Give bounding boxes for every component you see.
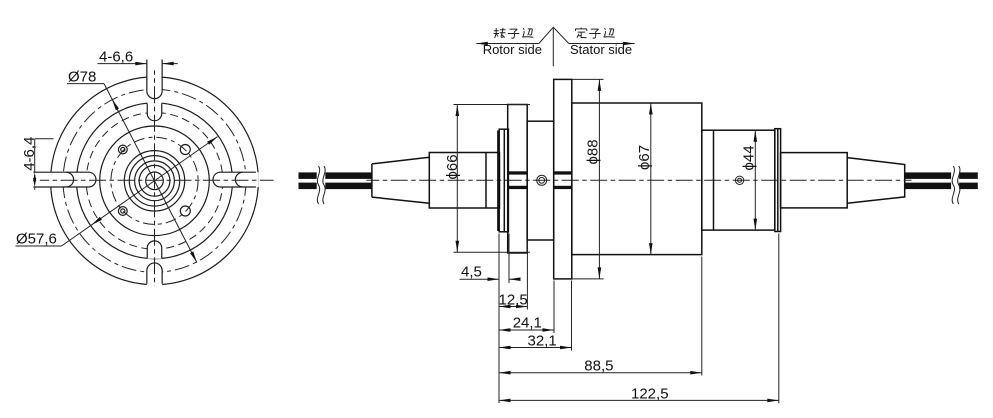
side view: sectional profile [299,27,978,403]
svg-text:ϕ88: ϕ88 [584,139,601,164]
slot left (with dimension extension) [33,172,96,187]
datum target symbol left [537,175,547,185]
bolt circle (dash-dot, Ø78 target) [63,89,246,272]
svg-text:4-6,4: 4-6,4 [21,137,38,171]
rotor plate (Ø66) [508,105,528,254]
hub circle [100,126,210,236]
svg-text:ϕ44: ϕ44 [740,145,757,170]
hole upper-left (counterbored) [118,145,127,154]
left cone housing [372,157,429,203]
vertical centerline [154,71,156,287]
hidden circle (dashed, Ø57.6 target) [86,113,223,250]
slot top inner [147,103,162,120]
slot top outer [147,60,162,99]
wire break squiggle [317,166,319,204]
dimension Ø66 [444,105,461,253]
svg-text:Ø78: Ø78 [68,69,96,86]
hole lower-right [180,206,190,216]
stator flange (Ø88) [554,79,572,279]
svg-text:4,5: 4,5 [461,264,482,281]
label 定子边 (Chinese) [576,28,615,39]
Ø88 extension lines [572,79,604,279]
dimension Ø57,6 leader [16,137,218,248]
dimension 12,5 [499,292,528,309]
svg-text:ϕ67: ϕ67 [636,145,653,170]
svg-text:88,5: 88,5 [584,357,613,374]
hole upper-right [180,145,190,155]
dimension Ø88 [584,79,601,279]
dimension Ø44 [740,130,757,230]
outer circle [51,77,259,285]
dimension 88,5 [499,357,702,374]
hole bolt circle (dash-dot) [111,137,198,224]
slot bottom inner [147,241,162,258]
bottom extension lines [499,234,779,404]
svg-text:Rotor side: Rotor side [483,42,542,57]
stator boss (Ø44) [702,130,775,230]
end disc pair [775,129,781,232]
middle hub section [527,121,554,240]
svg-text:32,1: 32,1 [528,332,557,349]
right lead wires [905,166,978,204]
dimension 122,5 [499,386,779,403]
Ø66 extension lines [454,105,531,253]
center boss circles [124,151,184,211]
side view centerline [367,179,912,181]
rotor/stator side annotation [476,27,634,66]
dimension 24,1 [499,315,554,332]
svg-text:24,1: 24,1 [513,315,542,332]
svg-text:Stator side: Stator side [570,42,632,57]
slot bottom outer [147,263,162,284]
left lead wires [299,166,373,204]
label 转子边 (Chinese) [494,28,534,38]
stator cylinder [781,153,848,208]
dimension 4-6,4 [21,137,54,190]
dimension 4-6,6 [98,49,178,66]
horizontal centerline [40,179,274,181]
wire break squiggle [952,166,954,204]
bore bands stator flange [554,171,571,189]
stator body (Ø67) [572,103,702,255]
rotor cylinder [429,153,499,209]
hole lower-left (counterbored) [118,207,127,216]
right cone [847,158,905,204]
svg-text:Ø57,6: Ø57,6 [16,231,57,248]
dimension Ø78 leader [67,69,197,263]
rotor disc pair [498,129,509,232]
svg-text:4-6,6: 4-6,6 [99,49,133,66]
dimension 32,1 [499,332,572,349]
slot right [213,172,256,187]
left view: flange front view [16,49,274,287]
dimension Ø67 [636,103,653,255]
bore bands rotor plate [508,171,526,189]
dimension 4,5 [460,264,521,282]
slot cut-out masks [33,60,258,287]
datum target symbol right [735,176,743,184]
inner flange circle [77,103,233,259]
svg-text:ϕ66: ϕ66 [444,154,461,179]
